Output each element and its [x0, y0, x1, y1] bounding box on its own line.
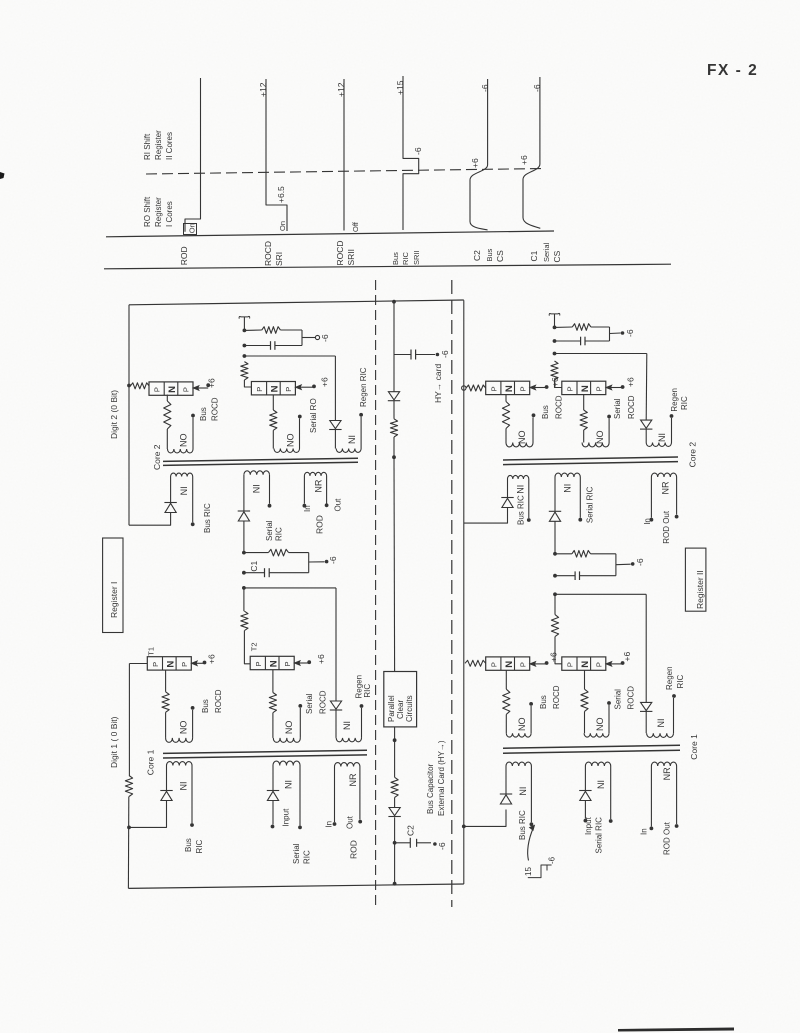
svg-text:External Card (HY→): External Card (HY→) [437, 740, 446, 816]
terminal Out II [675, 515, 679, 519]
terminal Regen RIC II [670, 414, 674, 418]
wire RCr out [616, 563, 631, 566]
transistor T2 PNP [250, 656, 294, 669]
resistor NO Q7 [503, 689, 510, 714]
node below box [393, 738, 397, 742]
register I left bus upper [128, 305, 130, 525]
wire Bus RIC C1 to bus [129, 801, 167, 828]
svg-text:+6: +6 [549, 652, 559, 662]
wire Q8 down [584, 670, 586, 689]
wire Serial II leg [554, 521, 556, 554]
wire to regen II [555, 353, 647, 355]
svg-text:ROCD: ROCD [263, 241, 273, 266]
svg-text:NO: NO [179, 434, 189, 448]
node +6 T2 [307, 660, 311, 664]
wire RC-II bottom [555, 340, 581, 342]
svg-text:Bus: Bus [184, 838, 193, 852]
svg-text:On: On [278, 221, 287, 231]
terminal -6 RC-I [315, 335, 319, 339]
wire Bus RIC I to bus [129, 513, 171, 526]
svg-text:Bus: Bus [391, 252, 400, 265]
wire C1 out [309, 561, 325, 563]
terminal Serial RO [298, 415, 302, 419]
diode Bus RIC r2 [500, 793, 512, 795]
node RCr b [553, 574, 557, 578]
resistor RC-I [262, 327, 281, 334]
wire box to node2 [394, 727, 396, 740]
trace Bus RIC SRII [403, 76, 419, 230]
winding NO T1 [165, 712, 167, 738]
svg-text:ROCD: ROCD [211, 397, 220, 421]
resistor middle wire [390, 419, 397, 437]
parallel clear circuits box [384, 672, 417, 727]
capacitor C1 [264, 568, 266, 577]
svg-text:SRII: SRII [412, 250, 421, 265]
svg-text:Bus: Bus [201, 699, 210, 713]
svg-text:Bus: Bus [541, 405, 550, 419]
wire Serial RIC leg [243, 521, 245, 553]
svg-text:C1: C1 [249, 560, 259, 571]
svg-text:+6.5: +6.5 [276, 186, 286, 203]
wire RC-II out [610, 332, 621, 335]
svg-text:RIC: RIC [363, 684, 372, 698]
svg-text:N: N [504, 385, 515, 392]
svg-text:Register II: Register II [695, 570, 705, 609]
svg-text:NO: NO [179, 721, 189, 735]
svg-text:NI: NI [518, 787, 528, 796]
terminal Bus ROCD Q7 [529, 702, 533, 706]
svg-text:-6: -6 [625, 329, 635, 337]
page edge mark [0, 172, 5, 179]
svg-text:In: In [640, 828, 649, 835]
svg-text:Out: Out [346, 815, 355, 829]
node RC-I b [243, 344, 247, 348]
svg-text:+6: +6 [470, 158, 480, 168]
svg-text:+6: +6 [207, 378, 217, 388]
diode Serial RIC I [238, 510, 250, 512]
diode regen I [330, 421, 341, 429]
terminal In II [650, 518, 654, 522]
svg-text:P: P [254, 661, 263, 666]
svg-text:NI: NI [516, 485, 526, 494]
register I left bus lower [128, 664, 130, 776]
diode Input C1 [267, 790, 279, 792]
svg-text:ROD Out: ROD Out [663, 821, 672, 855]
winding NO-r1 [505, 429, 507, 443]
svg-text:CS: CS [495, 250, 505, 262]
svg-text:In: In [325, 821, 334, 828]
svg-text:Digit 1 ( 0 Bit): Digit 1 ( 0 Bit) [109, 716, 119, 768]
terminal Out C1 [358, 820, 362, 824]
terminal Bus RIC I [191, 522, 195, 526]
svg-text:NO: NO [517, 718, 527, 732]
svg-text:T1: T1 [147, 647, 156, 656]
winding Input NI r2 [585, 762, 610, 766]
winding Bus RIC NI II [507, 475, 528, 479]
node top middle wire [392, 300, 396, 304]
svg-text:P: P [255, 387, 264, 392]
terminal Serial RIC I [268, 504, 272, 508]
svg-text:T2: T2 [250, 642, 259, 651]
base arrow T2 [298, 662, 309, 664]
resistor in left bus [125, 776, 132, 797]
node regen tap C1 [242, 586, 246, 590]
node RC-II a [553, 326, 557, 330]
resistor bus capacitor [391, 777, 398, 797]
terminal Bus ROCD r1 [532, 413, 536, 417]
terminal -6 RCr [631, 562, 635, 566]
svg-text:+6: +6 [316, 654, 326, 664]
transistor Q7 PNP [486, 657, 530, 670]
svg-text:I Cores: I Cores [165, 201, 174, 227]
terminal -6 (C2) [433, 842, 437, 846]
terminal Serial RIC r2 [609, 819, 613, 823]
terminal -6 C1 [325, 560, 329, 564]
transistor Q1 PNP [149, 382, 193, 395]
svg-text:Serial: Serial [542, 242, 551, 262]
terminal Serial RIC II [578, 518, 582, 522]
winding regen NI C1 [335, 711, 337, 738]
svg-text:C1: C1 [529, 250, 539, 261]
node C1 b [242, 571, 246, 575]
resistor feed Q2 [241, 362, 248, 380]
svg-text:P: P [182, 387, 191, 392]
svg-text:RIC: RIC [680, 396, 689, 410]
svg-text:15: 15 [524, 867, 533, 876]
resistor NO T2 [269, 693, 276, 713]
wire RCr top [555, 553, 572, 555]
svg-text:RIC: RIC [303, 850, 312, 864]
wire Input leg [272, 801, 274, 825]
On box at ROD [184, 224, 197, 235]
resistor feed Q7 [465, 660, 486, 666]
svg-text:ROCD: ROCD [627, 395, 636, 419]
svg-text:Serial: Serial [265, 520, 274, 541]
winding regen NI I [334, 430, 336, 449]
svg-text:P: P [180, 662, 189, 667]
winding Input NI C1 [273, 761, 300, 765]
wire RCr right [591, 553, 616, 555]
svg-text:RIC: RIC [676, 675, 685, 689]
svg-text:NR: NR [314, 479, 324, 492]
terminal Serial ROCD Q8 [607, 701, 611, 705]
svg-text:In: In [643, 518, 652, 525]
trace ROCD SRII [343, 79, 345, 231]
svg-text:Serial RIC: Serial RIC [595, 817, 604, 854]
svg-text:Serial: Serial [614, 689, 623, 710]
node regen tap I [243, 354, 247, 358]
svg-text:+12: +12 [258, 82, 268, 97]
winding NR C1 [335, 763, 360, 767]
svg-text:Bus: Bus [539, 695, 548, 709]
node +6 Q1 [206, 383, 210, 387]
svg-text:-6: -6 [440, 350, 450, 358]
resistor NO T1 [162, 692, 169, 713]
resistor feed Q8 [551, 615, 558, 637]
svg-text:Out: Out [334, 498, 343, 512]
node C2 [393, 841, 397, 845]
svg-text:ROCD: ROCD [627, 686, 636, 710]
svg-text:RIC: RIC [275, 527, 284, 541]
svg-text:ROD: ROD [179, 246, 189, 265]
svg-text:Digit 2 (0 Bit): Digit 2 (0 Bit) [109, 390, 119, 439]
capacitor C2 [409, 838, 411, 848]
terminal In r2 [650, 827, 654, 831]
svg-text:P: P [153, 387, 162, 392]
svg-text:Bus RIC: Bus RIC [518, 810, 527, 840]
svg-text:RO Shift: RO Shift [143, 196, 152, 227]
resistor RC-II [572, 324, 591, 331]
svg-text:RI Shift: RI Shift [143, 133, 152, 160]
terminal Input r2 [584, 819, 588, 823]
svg-text:NI: NI [179, 782, 189, 791]
svg-text:ROCD: ROCD [319, 690, 328, 714]
resistor NO-1 [164, 401, 171, 429]
svg-text:Serial RO: Serial RO [309, 398, 318, 433]
terminal -6 (top) [436, 353, 440, 357]
wire to regen C1 [244, 587, 336, 589]
svg-text:Serial: Serial [613, 398, 622, 419]
svg-text:Core 2: Core 2 [152, 444, 162, 470]
winding NO Q7 [505, 714, 507, 733]
svg-text:+6: +6 [626, 377, 636, 387]
svg-text:Serial: Serial [305, 693, 314, 714]
capacitor HY card [410, 350, 412, 360]
winding NO T2 [272, 713, 274, 738]
svg-text:P: P [151, 662, 160, 667]
wire RC-I bottom [244, 345, 270, 347]
svg-text:Core 1: Core 1 [689, 734, 699, 760]
svg-text:ROD: ROD [349, 840, 359, 859]
svg-text:Clear: Clear [396, 700, 405, 719]
svg-text:NR: NR [348, 773, 358, 786]
wire Q6 down [583, 395, 585, 410]
wire RCr cap right [580, 575, 616, 577]
wire Q5 down [505, 395, 507, 402]
base arrow Q8 [610, 663, 623, 665]
svg-text:C2: C2 [472, 250, 482, 261]
diode regen C1 [330, 701, 341, 709]
terminal -6 RC-II [621, 331, 625, 335]
wire cap to terminal [416, 354, 435, 356]
terminal Serial ROCD r2 [607, 415, 611, 419]
terminal Out I [325, 503, 329, 507]
svg-text:Regen: Regen [665, 666, 674, 690]
middle wire lower [393, 457, 396, 671]
middle wire upper [393, 302, 395, 392]
winding NO-2 [272, 430, 274, 448]
resistor RCr [572, 551, 591, 558]
svg-text:NI: NI [179, 486, 189, 495]
node bottom middle wire [393, 882, 397, 886]
wire bus ric II corner [464, 508, 508, 524]
svg-text:NI: NI [596, 780, 606, 789]
svg-text:ROCD: ROCD [555, 395, 564, 419]
core 2 left [163, 458, 358, 461]
node +6 Q8 [621, 661, 625, 665]
svg-text:-6: -6 [320, 334, 330, 342]
wire Q1 to resistor [166, 395, 168, 401]
resistor feed Q1 [131, 383, 150, 389]
winding regen NI II [645, 429, 647, 442]
svg-text:Bus: Bus [485, 248, 494, 261]
svg-text:NO: NO [286, 434, 296, 448]
resistor C1 net [268, 549, 288, 556]
svg-text:+6: +6 [622, 652, 632, 662]
svg-text:+6: +6 [207, 654, 217, 664]
terminal Serial RIC C1 [298, 826, 302, 830]
transistor T1 PNP [147, 657, 191, 670]
dashed card boundary 2 [451, 280, 453, 907]
winding Bus RIC NI I [171, 473, 193, 476]
svg-text:P: P [489, 662, 498, 667]
terminal Regen RIC C1 [360, 704, 364, 708]
base arrow Q5 [534, 387, 547, 389]
wire diode2 to node3 [394, 817, 396, 843]
svg-text:Bus: Bus [199, 407, 208, 421]
trace ROD [185, 78, 201, 232]
svg-text:Serial RIC: Serial RIC [586, 486, 595, 523]
svg-text:C2: C2 [406, 825, 416, 836]
transistor Q2 PNP [251, 382, 295, 395]
winding NO-r2 [583, 430, 585, 443]
svg-text:Register: Register [154, 197, 163, 227]
wire T2 down [272, 670, 274, 693]
svg-text:HY→ card: HY→ card [433, 364, 443, 403]
svg-text:Circuits: Circuits [405, 695, 414, 722]
svg-text:RIC: RIC [195, 840, 204, 854]
svg-text:Core 1: Core 1 [146, 749, 156, 775]
svg-text:-6: -6 [480, 84, 490, 92]
wire T1 down [165, 670, 167, 692]
svg-text:NO: NO [595, 718, 605, 732]
winding NR II [651, 473, 676, 477]
svg-text:ROCD: ROCD [214, 689, 223, 713]
node RC-I a [243, 329, 247, 333]
transistor Q8 PNP [562, 657, 606, 670]
svg-text:-6: -6 [532, 84, 542, 92]
wire RCr bottom [555, 575, 575, 577]
transistor Q5 PNP [486, 381, 530, 394]
trace C1 Serial CS [523, 77, 540, 228]
winding Serial NI II [555, 473, 580, 477]
svg-text:NI: NI [563, 484, 573, 493]
wire RC-I top [244, 329, 261, 331]
wire Q4 corner [244, 631, 250, 664]
switch 15 -6 glyph [528, 865, 552, 878]
svg-text:+6: +6 [320, 377, 330, 387]
svg-text:On: On [188, 223, 197, 233]
winding Bus RIC NI C1 [167, 762, 193, 766]
wire C1 right [289, 552, 309, 554]
dashed card boundary 1 [375, 280, 377, 908]
node bus ric r2 [462, 825, 466, 829]
svg-text:NI: NI [657, 433, 667, 442]
node regen tap II [553, 352, 557, 356]
wire to regen r [555, 593, 646, 595]
wire to C2 [395, 842, 411, 844]
node C1 a [242, 551, 246, 555]
diode Bus RIC C1 [160, 790, 172, 792]
timing baseline [106, 231, 554, 237]
svg-text:N: N [504, 661, 515, 668]
svg-text:Core 2: Core 2 [688, 442, 698, 468]
wire C1 top [244, 552, 269, 554]
core 1 left [163, 750, 367, 753]
svg-text:ROCD: ROCD [335, 240, 345, 265]
resistor NO Q8 [581, 689, 588, 711]
node RC-II b [553, 339, 557, 343]
diode Serial RIC II [549, 510, 561, 512]
svg-text:Bus Capacitor: Bus Capacitor [426, 763, 435, 814]
wire Input r2 leg [584, 801, 586, 819]
svg-text:II Cores: II Cores [165, 132, 174, 160]
wire to regen I [244, 355, 335, 357]
capacitor RCr [574, 571, 576, 580]
resistor NO-r2 [580, 410, 587, 430]
wire RC-II top [555, 326, 573, 328]
svg-text:N: N [270, 385, 281, 392]
capacitor RC-II [580, 337, 582, 346]
node +6 Q2 [312, 385, 316, 389]
wire RC-I out [302, 337, 316, 339]
svg-text:FX - 2: FX - 2 [707, 62, 758, 79]
svg-text:P: P [595, 662, 604, 667]
diode Bus RIC II [501, 497, 513, 499]
tee symbol II [549, 313, 560, 315]
svg-text:SRII: SRII [346, 249, 356, 266]
diode Bus RIC I [164, 502, 176, 504]
svg-text:SRI: SRI [274, 252, 284, 266]
svg-text:-6: -6 [437, 842, 447, 850]
diode middle wire [388, 392, 399, 400]
terminal Bus RIC r2 [530, 822, 534, 826]
svg-text:NI: NI [347, 435, 357, 444]
terminal Bus RIC II [527, 518, 531, 522]
svg-text:P: P [518, 662, 527, 667]
label Register II box [685, 548, 706, 611]
svg-text:+12: +12 [336, 82, 346, 97]
svg-text:P: P [566, 386, 575, 391]
svg-text:RIC: RIC [401, 252, 410, 266]
svg-text:P: P [518, 386, 527, 391]
node regen tap r [553, 592, 557, 596]
svg-text:Parallel: Parallel [387, 695, 396, 722]
svg-text:ROD Out: ROD Out [662, 510, 671, 544]
svg-text:P: P [283, 661, 292, 666]
wire C1 bottom [244, 572, 265, 574]
switch arrow [528, 828, 534, 861]
svg-text:P: P [566, 662, 575, 667]
svg-text:NR: NR [662, 767, 672, 780]
svg-text:N: N [167, 386, 178, 393]
svg-text:P: P [489, 386, 498, 391]
winding NR I [304, 472, 326, 476]
register I bottom wire [128, 884, 463, 888]
terminal In I [303, 504, 307, 508]
node RCr a [553, 552, 557, 556]
terminal Input C1 [271, 825, 275, 829]
resistor NO-2 [270, 410, 277, 430]
capacitor RC-I [270, 341, 272, 350]
resistor feed Q4 [241, 611, 248, 630]
winding NO-1 [166, 429, 168, 449]
svg-text:NI: NI [342, 721, 352, 730]
wire T1 feed [129, 663, 147, 665]
node middle wire [392, 455, 396, 459]
node +6 Q6 [621, 385, 625, 389]
svg-text:ROCD: ROCD [552, 685, 561, 709]
